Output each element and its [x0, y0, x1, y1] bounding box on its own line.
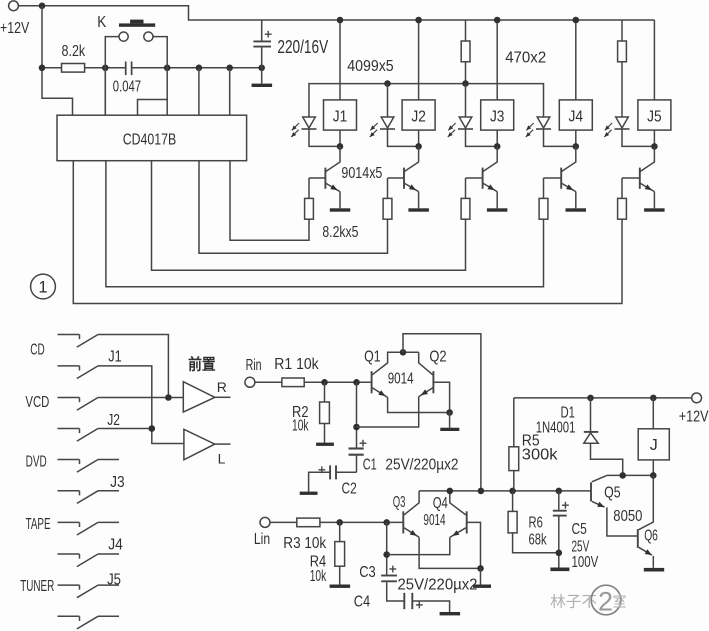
svg-text:CD: CD [30, 341, 44, 358]
relay coil J3 [481, 100, 514, 130]
wire J4 supply [575, 20, 577, 100]
svg-text:1: 1 [38, 279, 47, 297]
wire to ground Q2 base [449, 413, 451, 428]
ground Q1/Q2 [440, 428, 459, 431]
svg-text:J4: J4 [108, 537, 123, 554]
wire C1 to C2 [336, 471, 357, 473]
LED D2 emission arrows [370, 123, 377, 130]
wire switch row 6 stub [98, 490, 119, 492]
switch contact row 4 [58, 428, 80, 430]
svg-text:9014: 9014 [388, 370, 414, 387]
wire Lin to R3 [270, 521, 297, 523]
svg-text:R6: R6 [529, 515, 543, 532]
svg-text:J2: J2 [107, 412, 120, 429]
node collector J1 [337, 143, 344, 150]
switch contact row 3 [58, 397, 80, 399]
svg-text:前置: 前置 [188, 355, 216, 374]
ground emitter stage 1 [330, 208, 351, 211]
resistor 8.2k base stage 3 [465, 178, 467, 198]
LED D3 [465, 84, 467, 117]
wire Q4 base right [467, 522, 481, 568]
capacitor C3 electrolytic [389, 568, 396, 570]
wire Q2 base to ground node [433, 382, 449, 412]
svg-text:9014x5: 9014x5 [341, 165, 382, 182]
LED D1 [303, 117, 316, 128]
svg-text:Q6: Q6 [644, 528, 658, 545]
svg-text:L: L [218, 451, 226, 467]
wire Q5 collector bus [607, 474, 653, 476]
svg-text:10k: 10k [310, 568, 327, 585]
wire Rin to R1 [255, 381, 282, 383]
node J to Q6 collector [650, 472, 657, 479]
transistor Q 9014 stage 1 [325, 146, 340, 171]
LED D1 emission arrows [292, 123, 299, 130]
wire CD-L to L bus [98, 366, 184, 444]
wire node A down to C1 [356, 382, 358, 447]
svg-text:10k: 10k [292, 418, 309, 435]
terminal Lin [260, 517, 270, 527]
switch contact row 9 [58, 584, 80, 586]
wire R bus to preamp R [98, 397, 183, 399]
svg-text:TAPE: TAPE [26, 516, 51, 533]
node J4 supply rail [573, 17, 580, 24]
capacitor 0.047 [125, 62, 127, 76]
node R2 tap [321, 379, 328, 386]
resistor R4 10k [339, 522, 341, 541]
wire 8.2k rail [85, 67, 126, 69]
LED D3 emission arrows [448, 123, 455, 130]
svg-text:C1: C1 [363, 456, 377, 473]
resistor 8.2k base stage 1 [308, 178, 310, 198]
svg-text:J2: J2 [411, 108, 426, 125]
LED D4 [537, 117, 550, 128]
diode D1 1N4001 [590, 398, 592, 431]
node top-left branch [39, 3, 46, 10]
wire LED supply rail [309, 84, 544, 117]
svg-text:Q3: Q3 [393, 494, 406, 511]
transistor Q 9014 stage 4 [561, 146, 576, 171]
op-amp preamp L [184, 429, 215, 460]
wire J5 supply from rail end [653, 20, 655, 100]
node R5/R6 rail [509, 488, 516, 495]
watermark stamp [550, 585, 627, 616]
svg-text:Q4: Q4 [433, 495, 448, 512]
svg-text:2: 2 [598, 587, 613, 617]
relay coil J [652, 398, 654, 429]
svg-text:J1: J1 [108, 348, 122, 365]
resistor 470 first [465, 20, 467, 41]
resistor R3 10k [297, 518, 320, 527]
wire left branch to 8.2k rail and pin [42, 6, 73, 115]
svg-text:Q1: Q1 [364, 349, 381, 366]
resistor 8.2k base stage 4 [543, 178, 545, 198]
svg-text:300k: 300k [522, 447, 558, 464]
svg-text:TUNER: TUNER [20, 578, 54, 595]
svg-text:8050: 8050 [613, 508, 642, 525]
node collector J2 [415, 143, 422, 150]
svg-text:0.047: 0.047 [113, 79, 141, 96]
ground emitter stage 5 [644, 208, 665, 211]
svg-text:C5: C5 [572, 521, 587, 538]
wire pin13 drop [229, 68, 231, 115]
svg-text:C4: C4 [354, 594, 371, 611]
wire R1 to Q1 base [304, 381, 371, 383]
svg-text:220/16V: 220/16V [277, 37, 328, 57]
switch contact row 2 [58, 365, 80, 367]
svg-text:J5: J5 [647, 108, 662, 125]
LED D2 [387, 84, 389, 117]
switch contact row 6 [58, 490, 80, 492]
ground emitter stage 4 [566, 208, 587, 211]
resistor 8.2k base stage 2 [387, 178, 389, 198]
svg-text:9014: 9014 [423, 512, 445, 529]
node J3 supply rail [494, 17, 501, 24]
wire base route stage 4 [106, 161, 544, 287]
node C5 rail [556, 488, 563, 495]
node J2 supply rail [415, 17, 422, 24]
switch contact row 8 [58, 553, 80, 555]
resistor 470 second [621, 20, 623, 41]
ground R2 [316, 443, 334, 446]
wire K right leg [153, 37, 167, 100]
wire pin14 drop [198, 68, 200, 115]
svg-text:J3: J3 [110, 474, 125, 491]
svg-text:J3: J3 [490, 108, 505, 125]
switch contact row 7 [58, 521, 80, 523]
svg-text:J4: J4 [569, 108, 584, 125]
node 220uF junction [258, 65, 265, 72]
LED D4 emission arrows [526, 123, 533, 130]
ground C4 [440, 612, 461, 615]
wire base route stage 5 [73, 161, 622, 304]
node collector J3 [494, 143, 501, 150]
svg-text:林子不: 林子不 [550, 594, 597, 611]
svg-text:8.2k: 8.2k [62, 43, 86, 60]
node feed from upper pair [478, 488, 485, 495]
wire J5 coil to collector node [653, 130, 655, 146]
wire J1 supply [339, 20, 341, 100]
node collector bus [400, 349, 407, 356]
wire LED D1 cathode to node [309, 129, 340, 146]
op-amp preamp R [183, 382, 215, 412]
svg-text:25V/220µx2: 25V/220µx2 [398, 577, 478, 594]
terminal +12V right [692, 393, 702, 403]
capacitor C1 electrolytic [360, 442, 367, 444]
svg-text:J1: J1 [333, 108, 348, 125]
resistor 8.2k base stage 5 [621, 178, 623, 198]
svg-text:68k: 68k [529, 532, 547, 549]
capacitor 220/16V electrolytic [261, 20, 263, 41]
relay coil J1 [324, 100, 357, 130]
figure number 1 circled [31, 274, 56, 299]
node L bus junction [149, 425, 156, 432]
relay coil J4 [559, 100, 592, 130]
svg-text:+12V: +12V [0, 20, 29, 37]
node R bus junction [165, 394, 172, 401]
svg-text:1N4001: 1N4001 [536, 420, 576, 437]
wire switch row 5 stub [98, 459, 119, 461]
node J1 supply rail [337, 17, 344, 24]
svg-text:VCD: VCD [25, 394, 49, 411]
node Q4 collector rail [447, 488, 454, 495]
node pin14 rail [196, 65, 203, 72]
wire J3 supply [496, 20, 498, 100]
resistor R2 10k [324, 382, 326, 402]
svg-text:J: J [650, 437, 658, 454]
svg-text:R3 10k: R3 10k [283, 535, 326, 552]
wire C3 to C4 [387, 582, 405, 601]
capacitor C4 electrolytic [403, 593, 405, 609]
ground emitter stage 3 [487, 208, 508, 211]
terminal +12V top-left [9, 1, 19, 11]
svg-text:K: K [97, 14, 106, 31]
wire C4 to ground [412, 601, 449, 612]
svg-text:100V: 100V [572, 554, 599, 571]
node D1 to collector [619, 472, 626, 479]
wire J4 coil to collector node [575, 130, 577, 146]
svg-text:C2: C2 [342, 480, 357, 497]
wire switch row 9 stub [98, 584, 119, 586]
wire base route stage 2 [199, 161, 388, 254]
wire bias rail [419, 490, 591, 492]
wire switch row 10 stub [98, 615, 119, 617]
node cap 0.047 right [164, 65, 171, 72]
wire VCD-L to L bus [98, 428, 152, 430]
node Q3 emitter / Q4 base [477, 565, 484, 572]
node collector J5 [651, 143, 658, 150]
IC U1 CD4017B [57, 115, 247, 161]
wire base route stage 1 [230, 161, 309, 241]
node R4 tap [336, 519, 343, 526]
resistor R5 300k [513, 398, 515, 447]
ground R4 [330, 585, 351, 588]
resistor R6 68k [512, 491, 514, 512]
node Q2 emitter return [353, 424, 360, 431]
wire J2 supply [418, 20, 420, 100]
wire J1 coil to collector node [339, 130, 341, 146]
wire collector bus to lower rail [403, 334, 481, 491]
svg-text:470x2: 470x2 [505, 50, 546, 67]
transistor Q 9014 stage 3 [483, 146, 498, 171]
svg-text:4099x5: 4099x5 [347, 58, 394, 75]
wire LED D5 cathode to node [622, 129, 654, 146]
transistor Q 9014 stage 5 [640, 146, 655, 171]
svg-text:DVD: DVD [26, 454, 47, 471]
wire LED D4 cathode to node [544, 129, 576, 146]
wire LED D2 cathode to node [388, 129, 419, 146]
wire CD-R to R bus [98, 335, 168, 398]
node D1 rail [587, 395, 594, 402]
resistor R1 10k [282, 378, 304, 387]
wire +12V top rail [18, 6, 654, 20]
svg-text:C3: C3 [359, 564, 376, 581]
svg-text:Rin: Rin [246, 357, 262, 374]
svg-text:Q2: Q2 [429, 349, 446, 366]
svg-text:Q5: Q5 [604, 485, 621, 502]
node Q1 emitter / Q2 base [446, 409, 453, 416]
node R6/C5 [556, 550, 563, 557]
wire C2 to ground [309, 472, 331, 491]
ground C2 [300, 492, 318, 495]
transistor Q 9014 stage 2 [404, 146, 419, 171]
resistor 8.2k [42, 67, 62, 69]
svg-text:8.2kx5: 8.2kx5 [322, 224, 358, 241]
ground 220uF [252, 84, 273, 87]
wire Q1/Q2 collectors bus [387, 351, 419, 353]
capacitor C5 electrolytic [558, 491, 560, 510]
node B Q3 base [383, 519, 390, 526]
wire base route stage 3 [152, 161, 466, 271]
node Q4 emitter return [383, 551, 390, 558]
node J rail [650, 395, 657, 402]
LED D5 [616, 117, 629, 128]
wire J2 coil to collector node [418, 130, 420, 146]
relay coil J5 [638, 100, 671, 130]
svg-text:CD4017B: CD4017B [123, 132, 177, 149]
svg-text:Lin: Lin [254, 531, 270, 548]
wire K left leg [105, 37, 119, 116]
svg-text:R1 10k: R1 10k [274, 356, 319, 373]
wire switch row 8 stub [98, 553, 119, 555]
node LED2 rail [384, 80, 391, 87]
wire reset notch pins [138, 100, 168, 116]
wire J3 coil to collector node [496, 130, 498, 146]
wire switch row 7 stub [98, 521, 119, 523]
node 470/LED3 rail [462, 80, 469, 87]
node A Q1 base [353, 379, 360, 386]
svg-text:+12V: +12V [679, 409, 709, 426]
wire +12V right rail [514, 397, 692, 399]
terminal Rin [245, 377, 255, 387]
ground Q6 [644, 568, 664, 572]
ground C5 [550, 568, 569, 572]
node collector J4 [573, 143, 580, 150]
node 8.2k left [39, 65, 46, 72]
wire pin clock from rail [104, 68, 106, 115]
wire Q4 base node to ground [480, 568, 482, 584]
ground Q3/Q4 [473, 585, 491, 588]
switch contact row 1 [58, 334, 80, 336]
switch contact row 10 [58, 615, 80, 617]
ground emitter stage 2 [408, 208, 429, 211]
node K left contact rail [102, 65, 109, 72]
wire node B down to C3 [386, 522, 388, 574]
svg-text:R: R [217, 379, 227, 395]
wire R3 to Q3 base [320, 521, 403, 523]
capacitor C2 electrolytic [318, 469, 325, 471]
wire LED D3 cathode to node [466, 129, 498, 146]
switch contact row 5 [58, 459, 80, 461]
relay coil J2 [402, 100, 435, 130]
svg-text:室: 室 [613, 594, 627, 611]
node pin13 rail [226, 65, 233, 72]
LED D5 emission arrows [605, 123, 612, 130]
svg-text:25V/220µx2: 25V/220µx2 [385, 456, 458, 473]
